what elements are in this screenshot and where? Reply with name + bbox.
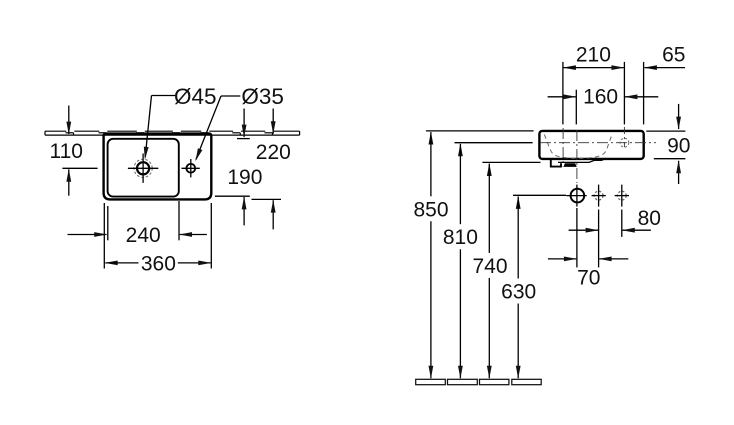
floor line — [416, 379, 542, 384]
svg-text:90: 90 — [667, 135, 690, 158]
basin outline (top view) — [104, 134, 212, 200]
svg-text:80: 80 — [638, 207, 661, 230]
leader line Ø35 — [195, 96, 240, 161]
dimension 740 (outlet height) — [487, 163, 492, 379]
svg-text:360: 360 — [141, 252, 176, 275]
dimension 90 (basin height) — [646, 104, 685, 184]
dimension 630 (fixing hole height) — [516, 196, 521, 379]
fixing hole left (front view) — [592, 185, 606, 207]
drain hole circle (front view) — [566, 189, 587, 203]
svg-text:110: 110 — [49, 140, 82, 163]
tap hole centerline (horizontal, front view) — [540, 142, 656, 144]
extension lines below basin (top view) — [104, 201, 211, 269]
svg-text:160: 160 — [583, 86, 618, 109]
svg-text:240: 240 — [126, 224, 161, 247]
dimension 160 (drain to tap hole) — [548, 94, 659, 99]
svg-text:190: 190 — [227, 166, 262, 189]
dimension 220 (basin depth) — [252, 109, 282, 230]
dimension 810 (tap centerline height) — [458, 143, 463, 378]
extension line fixing holes height 630 — [513, 194, 566, 196]
svg-text:740: 740 — [472, 255, 507, 278]
svg-text:Ø35: Ø35 — [241, 84, 284, 109]
svg-text:210: 210 — [576, 43, 611, 66]
centerline drain / fixing hole left (front view) — [576, 130, 578, 267]
dimension 80 (fixing hole spacing) — [569, 228, 651, 233]
dimension 360 (basin width) — [105, 261, 212, 266]
dimension 110 (wall to hole centerline) — [62, 106, 97, 196]
dimension 240 (bowl width) — [68, 232, 207, 237]
leader line Ø45 — [144, 96, 176, 160]
centerline tap hole (front view) — [623, 127, 625, 147]
dimension 190 (bowl depth) — [215, 109, 250, 226]
bowl inner outline (top view) — [108, 139, 179, 197]
dimension 65 (tap hole to edge) — [644, 65, 685, 70]
extension line rim height 850 — [426, 130, 534, 132]
wall line (top view) — [45, 131, 300, 135]
extension line tap centerline height 810 — [455, 142, 533, 144]
svg-text:630: 630 — [501, 281, 536, 304]
svg-text:Ø45: Ø45 — [174, 84, 217, 109]
svg-text:65: 65 — [662, 43, 685, 66]
dimension 210 (tap hole position) — [563, 65, 625, 70]
basin body (front view) — [539, 131, 643, 159]
drain hole Ø45 (top view) — [128, 154, 158, 183]
tap hole Ø35 (top view) — [182, 159, 200, 177]
drain outlet fitting (front view) — [551, 158, 607, 167]
svg-text:220: 220 — [256, 141, 291, 164]
dimension 850 (rim height) — [429, 132, 434, 379]
bowl hidden outline (front view, dashed) — [544, 135, 612, 159]
extension lines fixing holes — [599, 210, 622, 268]
tap hole projection mark (front view) — [620, 138, 629, 147]
dimension 70 (drain to fixing hole) — [548, 257, 628, 262]
centerline outlet (front view) — [562, 128, 564, 167]
extension lines above basin (front view) — [563, 62, 644, 125]
svg-text:810: 810 — [443, 226, 478, 249]
svg-text:70: 70 — [577, 266, 600, 289]
extension line outlet height 740 — [482, 161, 540, 163]
svg-text:850: 850 — [413, 198, 448, 221]
fixing hole right (front view) — [615, 185, 629, 207]
